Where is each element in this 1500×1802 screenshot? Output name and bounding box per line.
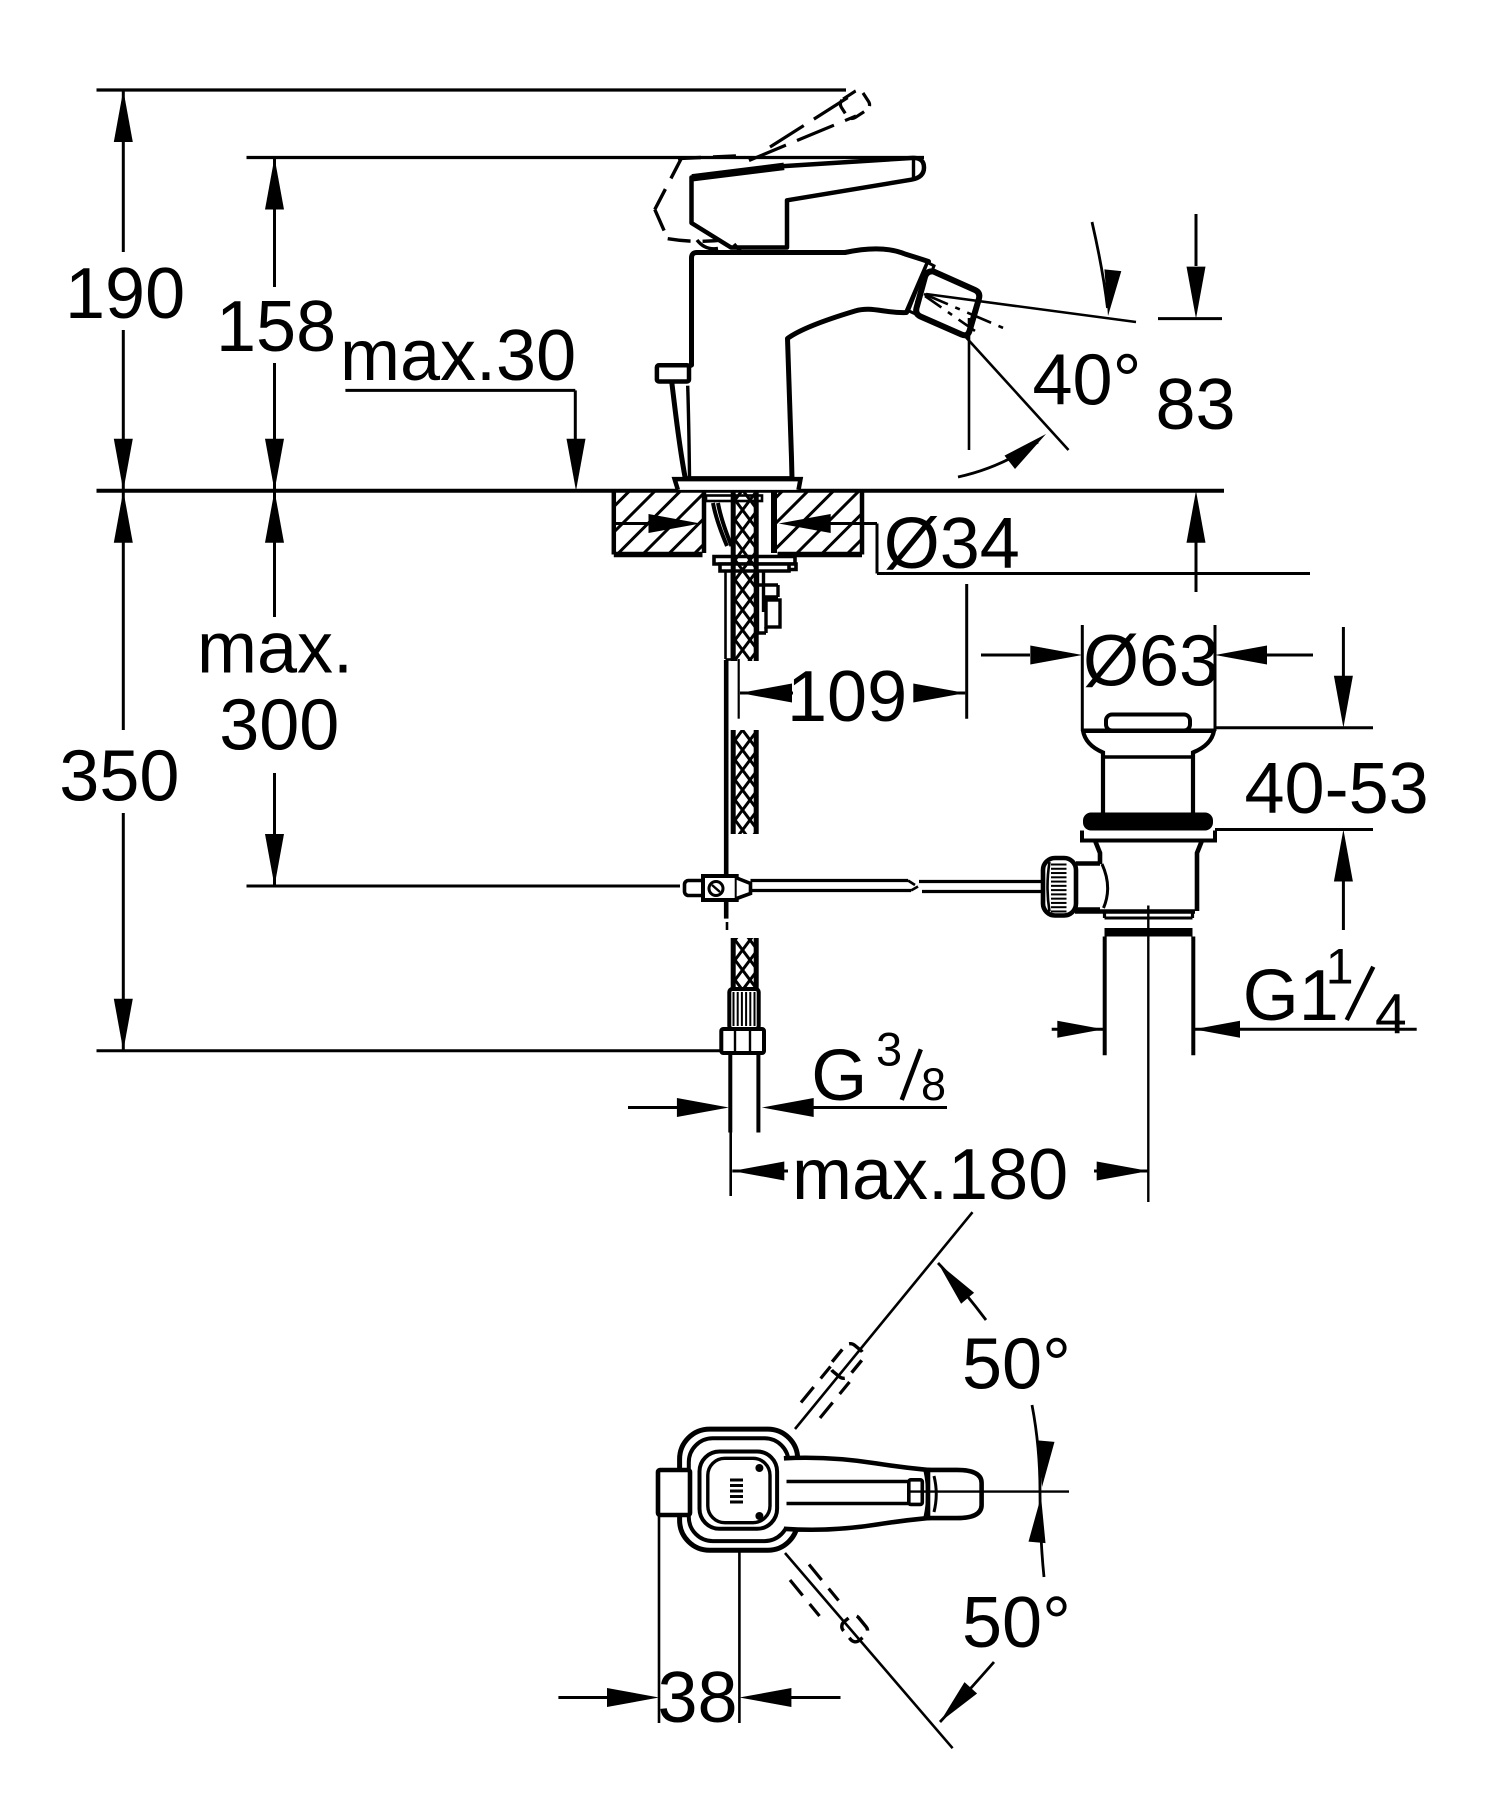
svg-text:38: 38 <box>658 1658 738 1738</box>
handle ball joint arcs <box>925 1471 928 1517</box>
40deg lower arc arrow <box>958 442 1038 477</box>
dashed raised knob outline <box>655 158 682 210</box>
lever pivot cone <box>737 878 751 899</box>
dimension 38 extension lines <box>658 1515 661 1723</box>
lever pivot block <box>703 876 737 900</box>
svg-text:G: G <box>811 1036 867 1116</box>
flexible hose curve in shank <box>713 503 727 546</box>
svg-text:max.30: max.30 <box>340 316 576 396</box>
dimension O63 arrows <box>981 654 1030 657</box>
faucet centerline below shank <box>738 659 740 719</box>
top view handle knob <box>928 1470 982 1518</box>
handle slot lines <box>787 1480 909 1484</box>
aerator body <box>916 271 979 335</box>
mounting nut below deck <box>720 564 796 571</box>
drain head flange <box>1083 728 1214 733</box>
spray lower direction line 40deg <box>963 334 1069 450</box>
screw dot top <box>755 1464 763 1472</box>
svg-text:8: 8 <box>921 1059 946 1110</box>
svg-text:40-53: 40-53 <box>1245 749 1429 829</box>
dimension 158 vertical line <box>273 158 276 288</box>
svg-text:Ø34: Ø34 <box>884 504 1020 584</box>
handle knob top edge thick <box>692 166 784 177</box>
dimension 109 <box>740 684 792 703</box>
aerator collar hatched <box>909 263 935 315</box>
braided hose lower segment <box>733 938 756 989</box>
drain push cap <box>1106 715 1190 731</box>
drain O-ring seal black <box>1083 813 1213 831</box>
50deg double arrow at centerline <box>1038 1440 1055 1487</box>
svg-text:50°: 50° <box>962 1324 1071 1404</box>
shank left wall <box>702 491 707 553</box>
screw dot bottom <box>755 1512 763 1520</box>
50deg arc middle segment upper <box>1032 1405 1044 1577</box>
handle lever tip cap line <box>912 159 915 179</box>
top view second outline <box>689 1438 789 1541</box>
top view spout stub <box>658 1470 690 1515</box>
pop-up vertical rod <box>724 660 729 876</box>
shank top washer <box>706 496 762 502</box>
drain body sides <box>1095 841 1100 865</box>
pop-up rod knob on body <box>657 365 689 381</box>
lower dashed handle lever lines <box>809 1565 839 1601</box>
faucet body outline <box>672 249 929 479</box>
upper 50deg axis line <box>795 1212 973 1429</box>
body left edge inner taper line <box>688 386 690 477</box>
deck hatching <box>566 491 936 555</box>
deck top surface line <box>97 489 1225 493</box>
109 right extension line <box>965 584 968 719</box>
drain knurled knob <box>1043 858 1076 916</box>
drain tailpipe walls <box>1103 937 1107 1056</box>
dimension G3/8 <box>628 1106 678 1109</box>
top view cover plate outline <box>700 1452 778 1529</box>
top view outer escutcheon outline <box>680 1429 798 1550</box>
dimension 40-53 reference lines <box>1215 726 1373 729</box>
svg-text:max.: max. <box>197 608 353 688</box>
dimension 40-53 arrows <box>1342 627 1345 676</box>
dimension max.300 vertical line <box>273 491 276 617</box>
dimension 83 upper tick and arrow <box>1158 317 1222 320</box>
drain centerline <box>1147 906 1149 1203</box>
braided hose middle segment <box>733 730 756 834</box>
dimension 350 vertical line <box>122 491 125 730</box>
svg-text:max.180: max.180 <box>792 1135 1068 1215</box>
svg-text:190: 190 <box>65 254 185 334</box>
shank right wall <box>771 491 777 553</box>
svg-text:350: 350 <box>59 737 179 817</box>
base plate <box>675 479 801 490</box>
top view inner plate outline <box>708 1458 770 1522</box>
dimension 83 lower arrow <box>1195 540 1198 592</box>
dashed raised handle end cap <box>838 88 872 121</box>
svg-text:Ø63: Ø63 <box>1083 622 1219 702</box>
mounting washer below deck <box>714 557 795 565</box>
dimension 190 vertical line <box>122 90 125 252</box>
svg-text:158: 158 <box>216 287 336 367</box>
braided hose in shank <box>733 491 756 661</box>
G3/8 knurled nut <box>729 989 758 1029</box>
svg-text:83: 83 <box>1156 365 1236 445</box>
spray axis lines dash-dot <box>926 294 1136 322</box>
dimension 38 arrows <box>558 1696 610 1699</box>
horizontal lever rod <box>751 879 909 882</box>
dimension max.180 <box>732 1162 784 1181</box>
hose end fitting bracket <box>756 571 778 633</box>
top view centerline <box>908 1490 1069 1492</box>
svg-text:4: 4 <box>1375 982 1407 1046</box>
spray vertical reference line <box>968 318 971 450</box>
40deg upper arc arrow <box>1092 222 1108 308</box>
lower dashed handle knob <box>839 1613 870 1644</box>
svg-text:40°: 40° <box>1033 340 1142 420</box>
pop-up rod sleeve below nut <box>724 571 727 659</box>
svg-text:50°: 50° <box>962 1583 1071 1663</box>
lower 50deg arc and arrow <box>940 1682 977 1722</box>
drain body boss arc <box>1102 864 1108 908</box>
upper 50deg arc and arrow <box>938 1263 974 1304</box>
O34 leader line <box>876 524 879 574</box>
knob stem lines <box>1076 861 1100 866</box>
upper dashed handle knob <box>828 1341 867 1381</box>
grohe logo marks <box>730 1479 743 1482</box>
svg-text:3: 3 <box>876 1023 902 1076</box>
lower 50deg axis line <box>785 1553 953 1748</box>
G3/8 hex nut <box>721 1029 764 1053</box>
drain body bottom line <box>1075 909 1195 914</box>
upper dashed handle lever lines <box>801 1367 831 1403</box>
dim reference line top 158 <box>247 156 925 159</box>
faucet center extension line below tube <box>729 1133 732 1197</box>
svg-text:300: 300 <box>219 685 339 765</box>
handle ball joint arc <box>697 240 718 249</box>
dim reference line max.300 bottom <box>247 885 681 888</box>
dim reference line bottom 350 <box>97 1049 730 1052</box>
O63 extension lines <box>1081 625 1084 731</box>
svg-text:G1: G1 <box>1243 956 1339 1036</box>
supply tube <box>728 1053 732 1133</box>
svg-text:109: 109 <box>787 657 907 737</box>
svg-text:1: 1 <box>1326 938 1354 994</box>
deck slab edges <box>612 491 617 555</box>
dimension G1 1/4 <box>1052 1028 1104 1031</box>
dashed raised handle lever lines <box>770 96 851 148</box>
top view handle body <box>784 1458 928 1530</box>
solid handle knob and lever <box>692 158 925 248</box>
dimension O34 arrows <box>614 522 648 525</box>
dim reference line top 190 <box>97 88 847 91</box>
drain flange under O-ring <box>1082 831 1215 841</box>
lever rod end cap <box>685 881 705 896</box>
drain tail groove <box>1103 912 1106 919</box>
